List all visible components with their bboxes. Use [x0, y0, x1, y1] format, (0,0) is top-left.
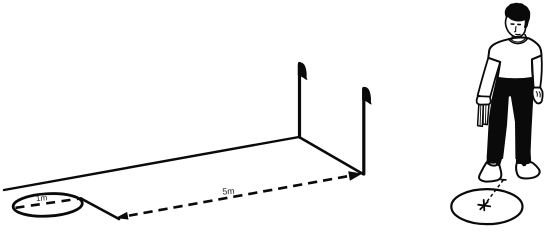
svg-text:5m: 5m: [222, 186, 235, 197]
svg-text:1m: 1m: [35, 193, 47, 203]
